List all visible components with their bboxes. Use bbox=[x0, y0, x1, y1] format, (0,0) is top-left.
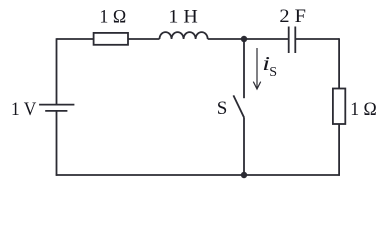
svg-text:2 F: 2 F bbox=[279, 6, 306, 27]
node B (bottom junction) bbox=[241, 172, 247, 178]
svg-text:1 Ω: 1 Ω bbox=[99, 7, 126, 28]
svg-text:S: S bbox=[217, 98, 228, 119]
resistor R2 1Ω (right) bbox=[333, 89, 345, 125]
battery V1 short plate (negative) bbox=[45, 110, 67, 112]
switch S blade (open) bbox=[233, 95, 244, 117]
svg-text:1 H: 1 H bbox=[168, 7, 198, 28]
wire bottom horizontal bbox=[56, 174, 340, 176]
current arrow iS head bbox=[253, 82, 260, 89]
inductor L1 1H bbox=[160, 32, 208, 39]
svg-text:1 Ω: 1 Ω bbox=[350, 99, 377, 120]
wire left vertical lower (bottom-left corner to battery) bbox=[56, 111, 58, 176]
wire switch branch lower (switch to node B) bbox=[243, 118, 245, 175]
wire right vertical lower (resistor R2 to bottom-right corner) bbox=[338, 124, 340, 176]
current arrow iS shaft bbox=[256, 48, 258, 89]
wire top-left horizontal (source to resistor) bbox=[57, 38, 94, 40]
capacitor C1 2F right plate bbox=[294, 27, 296, 54]
svg-text:1 V: 1 V bbox=[11, 99, 37, 120]
wire inductor to node A bbox=[208, 38, 244, 40]
battery V1 long plate (positive) bbox=[39, 104, 74, 106]
wire left vertical upper (battery to top-left corner) bbox=[56, 38, 58, 104]
resistor R1 1Ω (top) bbox=[94, 33, 128, 45]
wire right vertical upper (corner to resistor R2) bbox=[338, 38, 340, 88]
wire capacitor to top-right corner bbox=[295, 38, 339, 40]
wire switch branch upper (node A to switch contact) bbox=[243, 39, 245, 98]
node A (top junction) bbox=[241, 36, 247, 42]
capacitor C1 2F left plate bbox=[288, 27, 290, 54]
wire between resistor R1 and inductor L1 bbox=[128, 38, 160, 40]
svg-text:S: S bbox=[269, 65, 277, 80]
wire node A to capacitor C1 bbox=[244, 38, 289, 40]
